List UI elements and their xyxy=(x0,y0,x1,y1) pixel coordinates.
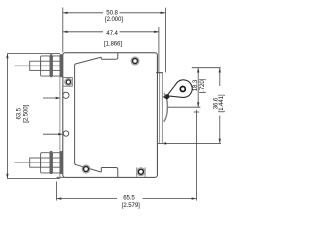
svg-text:63.5: 63.5 xyxy=(15,107,22,119)
top ref line for 18.3/36.6 xyxy=(192,67,221,69)
rivet R4 pedestal xyxy=(136,167,138,177)
inner bracket outline xyxy=(75,53,118,177)
toggle boot arc xyxy=(164,93,168,121)
50.8 dim xyxy=(62,8,64,53)
65.5 dim xyxy=(56,182,58,201)
bottom terminal xyxy=(30,151,63,174)
rivet R1 tab xyxy=(63,78,72,87)
rivet R3 xyxy=(82,165,90,173)
svg-text:[2.579]: [2.579] xyxy=(122,202,140,209)
svg-text:[2.000]: [2.000] xyxy=(105,16,123,23)
top terminal xyxy=(30,54,63,77)
18.3 dim line xyxy=(197,68,199,108)
18.3 bottom ref / boot tangent xyxy=(168,106,201,108)
body bottom flange edge xyxy=(57,176,65,178)
centerline top terminal xyxy=(15,65,63,67)
47.4 dim xyxy=(158,27,160,72)
svg-text:65.5: 65.5 xyxy=(123,195,135,202)
svg-text:47.4: 47.4 xyxy=(106,30,118,37)
right bezel strip xyxy=(159,73,161,144)
hole C1 xyxy=(63,92,69,98)
rivet R2 xyxy=(131,57,139,65)
svg-text:[2.500]: [2.500] xyxy=(22,104,29,122)
toggle lever xyxy=(167,80,192,98)
centerline bottom terminal xyxy=(15,162,63,164)
body outline xyxy=(63,53,158,178)
rivet R1 xyxy=(65,78,72,85)
63.5 dim xyxy=(6,54,8,179)
leader arrows at left edge xyxy=(43,97,59,99)
left plate line xyxy=(59,54,61,177)
svg-text:[.720]: [.720] xyxy=(199,78,206,93)
lever hole xyxy=(180,87,185,92)
svg-text:[1.866]: [1.866] xyxy=(104,40,122,47)
svg-text:[1.441]: [1.441] xyxy=(218,94,225,112)
rivet R4 xyxy=(137,168,145,176)
dark wedge at lever base xyxy=(164,94,170,100)
36.6 dim line xyxy=(219,68,221,86)
hole C2 xyxy=(63,131,68,136)
